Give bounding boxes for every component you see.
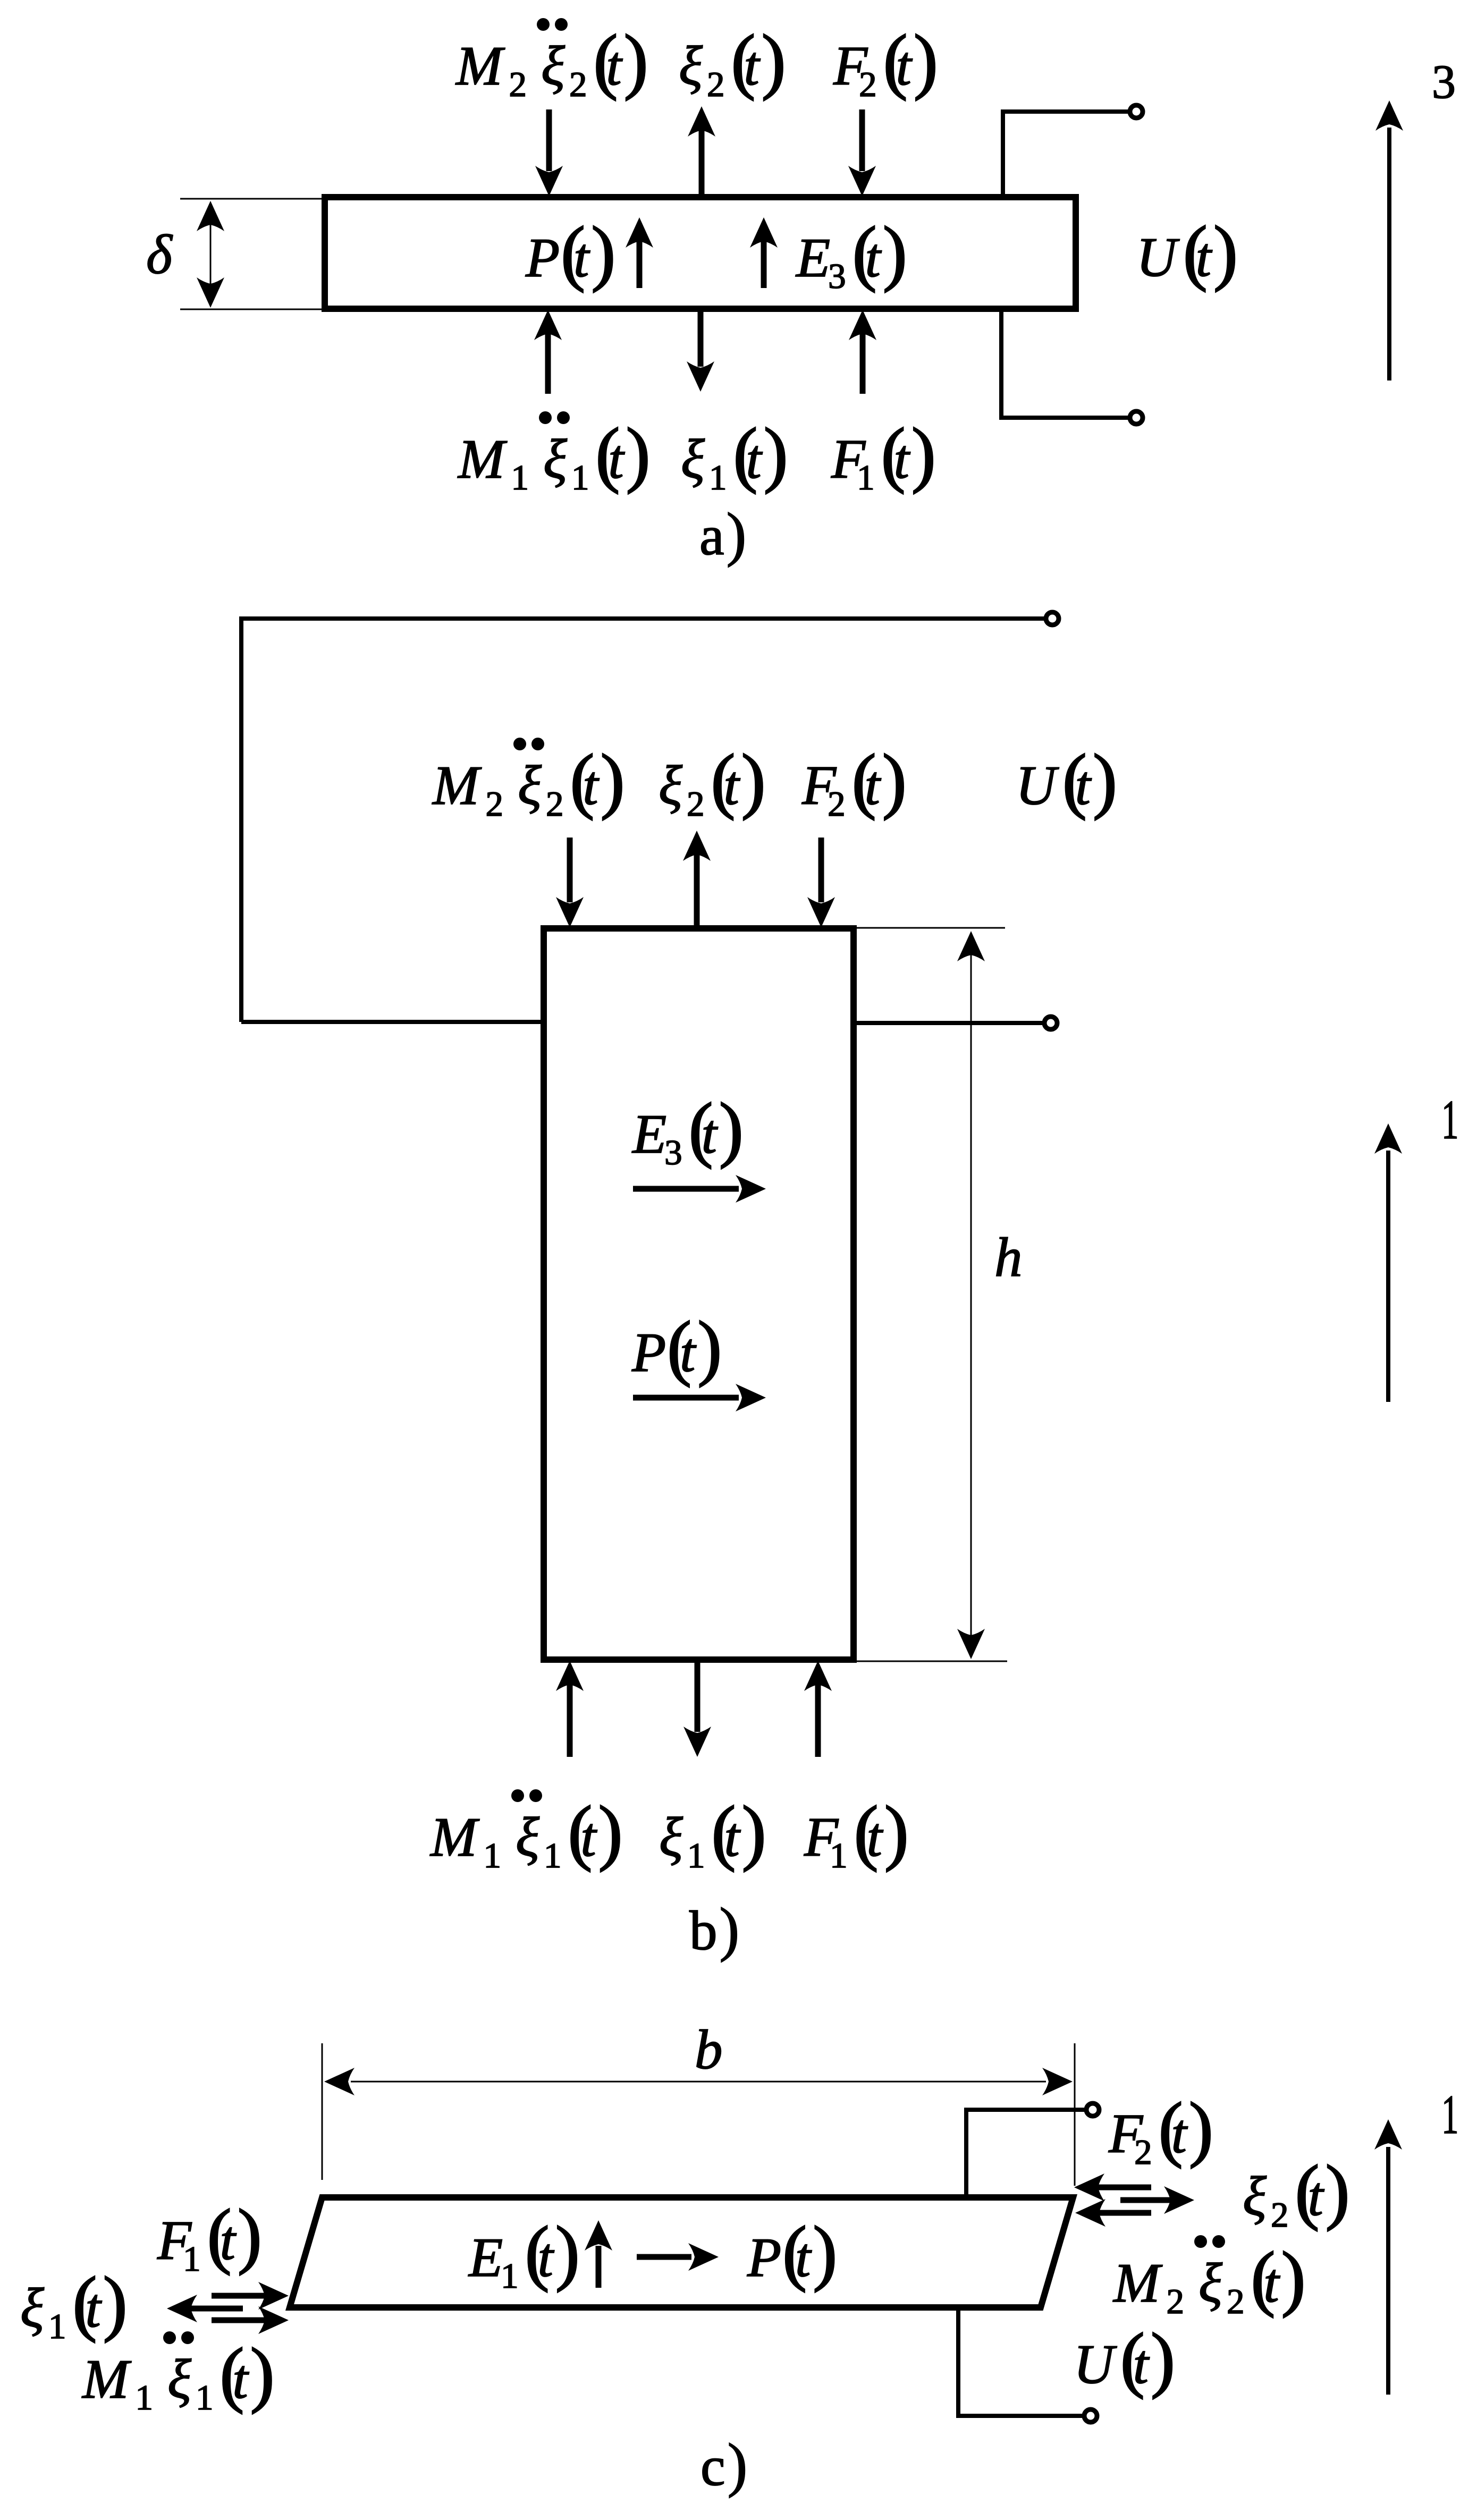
svg-text:M1ξ1(t): M1ξ1(t)	[81, 2333, 275, 2417]
terminal bottom right (fig c)	[1084, 2409, 1097, 2422]
svg-text:F2(t): F2(t)	[801, 739, 907, 824]
svg-text:δ: δ	[146, 223, 173, 285]
shear arrow left-bottom (right side, fig c)	[1099, 2210, 1151, 2216]
shear arrow left-top (right side, fig c)	[1098, 2185, 1151, 2191]
force arrow F1 fig b (up)	[815, 1685, 821, 1757]
shear arrow right-top (left side, fig c)	[212, 2293, 265, 2299]
plate a	[325, 197, 1076, 309]
terminal top (fig a)	[1130, 105, 1143, 118]
displacement arrow xi2 fig b (up)	[694, 855, 700, 928]
shear arrow right-middle (right side, fig c)	[1120, 2197, 1170, 2203]
displacement arrow xi1 (down, bottom, fig a)	[698, 309, 704, 367]
wire left to plate (fig b)	[241, 1020, 544, 1024]
electrode wire top (fig a)	[1003, 112, 1130, 197]
arrow up after P(t)	[637, 240, 643, 288]
svg-text:3: 3	[1432, 56, 1456, 108]
force arrow F2 fig b (down)	[818, 838, 824, 902]
b dim extension right line	[1074, 2043, 1076, 2186]
svg-text:F1(t): F1(t)	[831, 413, 936, 497]
force arrow M2 fig b (down)	[567, 838, 573, 902]
terminal top (fig b)	[1046, 612, 1059, 625]
electrode wire bottom (fig a)	[1001, 309, 1130, 418]
svg-text:ξ2(t): ξ2(t)	[679, 20, 786, 104]
svg-text:F1(t): F1(t)	[157, 2194, 262, 2279]
displacement arrow xi1 fig b (down)	[695, 1660, 700, 1732]
terminal top right (fig c)	[1086, 2103, 1099, 2116]
force arrow F2 (down, top, fig a)	[859, 109, 865, 171]
terminal right (fig b)	[1044, 1017, 1057, 1029]
arrow P right (fig b)	[633, 1395, 739, 1401]
svg-text:F1(t): F1(t)	[804, 1791, 909, 1875]
h dim extension bottom line	[856, 1661, 1007, 1662]
svg-text:ξ2(t): ξ2(t)	[659, 739, 766, 824]
svg-text:M2ξ2(t): M2ξ2(t)	[455, 20, 648, 104]
wire top (fig b)	[241, 619, 1046, 1022]
arrow up after E1(t)	[596, 2246, 602, 2288]
svg-text:ξ2(t): ξ2(t)	[1243, 2150, 1350, 2235]
svg-text:c): c)	[700, 2432, 747, 2498]
shear arrow right-bottom (left side, fig c)	[212, 2318, 265, 2323]
svg-text:b: b	[695, 2018, 723, 2081]
b dim double arrow	[351, 2081, 1046, 2083]
svg-text:1: 1	[1441, 1088, 1459, 1151]
axis 1 arrow (fig b)	[1386, 1151, 1390, 1402]
svg-text:ξ1(t): ξ1(t)	[20, 2262, 128, 2346]
axis 1 arrow (fig c)	[1386, 2147, 1390, 2395]
svg-text:M1ξ1(t): M1ξ1(t)	[429, 1791, 623, 1875]
force arrow M2 (down, top, fig a)	[546, 109, 552, 171]
svg-text:M2ξ2(t): M2ξ2(t)	[432, 739, 625, 824]
force arrow M1 fig b (up)	[567, 1685, 573, 1757]
h dim double arrow	[970, 935, 972, 1657]
displacement arrow xi2 (up, top, fig a)	[699, 130, 705, 197]
electrode wire bottom right (fig c)	[958, 2307, 1085, 2416]
shear arrow left-middle (left side, fig c)	[191, 2306, 243, 2312]
h dim extension top line	[856, 927, 1005, 929]
plate c (sheared parallelogram)	[290, 2197, 1073, 2307]
arrow right before P(t) fig c	[637, 2254, 691, 2260]
axis 3 arrow	[1387, 128, 1391, 380]
delta dim extension lines (fig a)	[180, 198, 325, 200]
force arrow F1 (up, bottom, fig a)	[860, 334, 866, 394]
svg-text:F2(t): F2(t)	[833, 20, 938, 104]
plate b	[544, 928, 854, 1660]
svg-text:ξ1(t): ξ1(t)	[681, 413, 788, 497]
svg-text:a): a)	[699, 501, 746, 568]
arrow E3 right (fig b)	[633, 1186, 739, 1192]
b dim extension left line	[322, 2043, 323, 2180]
svg-text:U(t): U(t)	[1074, 2318, 1175, 2399]
svg-text:M2ξ2(t): M2ξ2(t)	[1112, 2237, 1306, 2321]
svg-text:U(t): U(t)	[1016, 739, 1117, 821]
electrode wire right (fig b)	[854, 1021, 1045, 1025]
terminal bottom (fig a)	[1130, 411, 1143, 424]
svg-text:ξ1(t): ξ1(t)	[659, 1791, 766, 1875]
electrode wire top right (fig c)	[966, 2110, 1087, 2197]
arrow up before E3(t)	[761, 240, 767, 288]
force arrow M1 (up, bottom, fig a)	[545, 334, 551, 394]
svg-text:b): b)	[689, 1896, 739, 1963]
svg-text:M1ξ1(t): M1ξ1(t)	[457, 413, 651, 497]
delta dim double arrow	[210, 203, 212, 305]
svg-text:F2(t): F2(t)	[1108, 2087, 1213, 2172]
svg-text:1: 1	[1441, 2083, 1459, 2145]
svg-text:U(t): U(t)	[1136, 211, 1238, 292]
svg-text:h: h	[994, 1226, 1023, 1288]
